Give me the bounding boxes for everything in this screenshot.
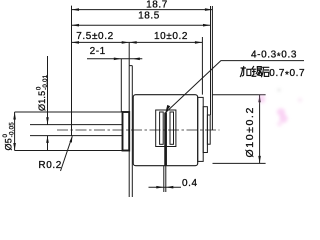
leader for terminals [165, 61, 304, 113]
terminal slot left [160, 112, 164, 144]
18.7 arrows [72, 8, 80, 11]
right extension line 18.5 [210, 6, 212, 115]
shaft tip / left extension line [71, 6, 73, 136]
svg-text:Ø10±0.2: Ø10±0.2 [244, 106, 256, 157]
dimension 2-1 line [87, 58, 142, 60]
dia5 arrows [13, 112, 16, 120]
motor body [133, 95, 198, 166]
10 arrows [129, 41, 137, 44]
R0.2 leader arrowhead [70, 136, 73, 143]
dimension texts [2, 0, 305, 189]
right extension 10 [201, 37, 203, 95]
pink watermark blobs [259, 89, 302, 127]
svg-text:7.5±0.2: 7.5±0.2 [76, 31, 114, 42]
svg-text:10±0.2: 10±0.2 [154, 31, 188, 42]
2-1 left extension line [120, 59, 122, 112]
7.5 arrows [72, 41, 80, 44]
arrowheads [13, 8, 261, 188]
char hou [262, 67, 269, 77]
terminal window outer [156, 110, 176, 147]
dimension 18.5 line [72, 24, 211, 26]
dia5 dim line [14, 112, 16, 151]
dia10 extension lines [213, 95, 266, 164]
dia5 extension lines [15, 112, 123, 151]
dia1.5 dim lines [47, 56, 49, 151]
right extension line 18.7 [211, 6, 213, 130]
shaft [30, 125, 122, 136]
R0.2 leader [61, 136, 73, 171]
svg-text:0.7*0.7: 0.7*0.7 [269, 68, 305, 81]
chinese characters jia xi hou (hand drawn) [240, 66, 269, 77]
back pivot [207, 115, 210, 144]
0.4 dim line [149, 186, 182, 188]
svg-text:0.4: 0.4 [182, 178, 198, 189]
back cap [198, 97, 204, 161]
bearing boss [123, 112, 130, 151]
svg-text:18.7: 18.7 [146, 0, 168, 11]
terminal pin solid [164, 113, 167, 166]
0.4 outside arrows [156, 186, 164, 189]
front flange plate [129, 66, 132, 197]
leader arrowhead [165, 105, 170, 113]
svg-text:2-1: 2-1 [90, 46, 106, 57]
2-1 outside arrows [114, 58, 122, 61]
pin extension lines below body [164, 166, 166, 192]
back step [203, 107, 207, 153]
terminal slot right [170, 112, 174, 144]
svg-text:4-0.3*0.3: 4-0.3*0.3 [251, 50, 297, 63]
dia1.5 outside arrows [46, 117, 49, 124]
svg-text:18.5: 18.5 [138, 10, 160, 21]
char jia [240, 67, 250, 77]
dia10 dim line [259, 95, 261, 164]
horizontal centerline [57, 129, 220, 131]
dimension 18.7 line [72, 9, 213, 11]
18.5 arrows [72, 24, 80, 27]
front extension line [128, 42, 130, 65]
dimension 7.5 and 10 line [72, 41, 203, 43]
svg-text:R0.2: R0.2 [38, 160, 62, 171]
dia10 arrows [258, 95, 261, 103]
char xi [252, 66, 262, 76]
